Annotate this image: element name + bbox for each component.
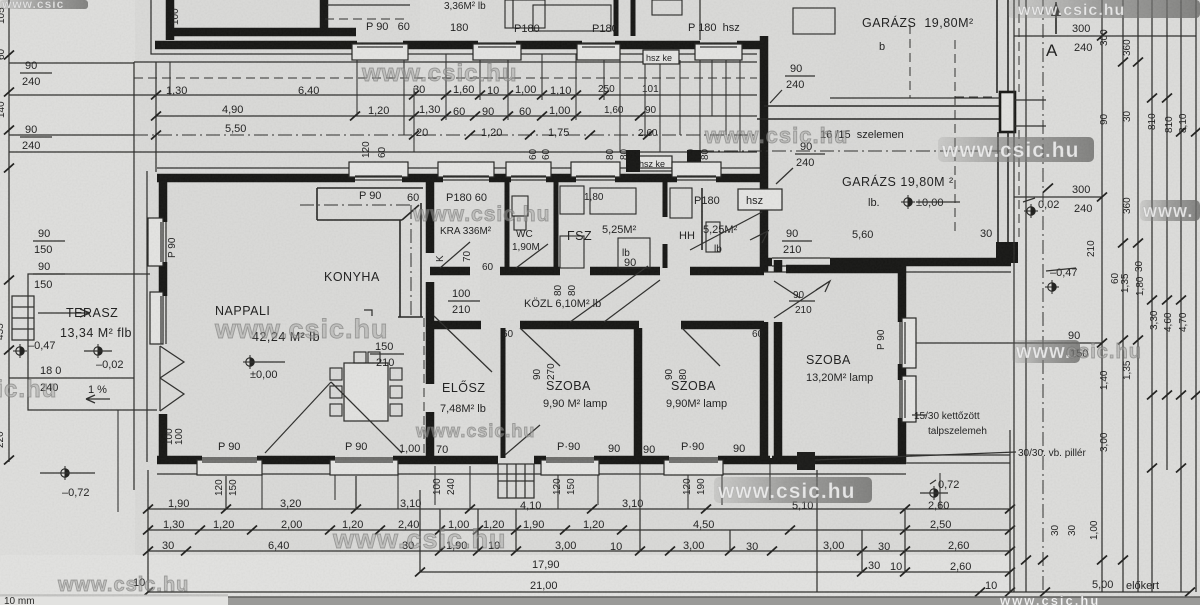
mid strip vertical extension lines	[170, 54, 740, 152]
row A numbers	[168, 498, 949, 512]
row C ticks	[143, 547, 1015, 556]
datum nappali	[243, 355, 285, 381]
szelemen dashdot line	[700, 150, 1005, 152]
rotated dims 80 80 near x610	[605, 148, 630, 160]
top building interior wall vertical2	[320, 0, 329, 30]
partition KRA|WC	[505, 182, 510, 268]
terrace french door triangles	[160, 346, 184, 411]
main bottom wall segments	[157, 456, 770, 465]
right dim 90/150 low	[1014, 330, 1107, 360]
label hszke box top	[643, 50, 679, 64]
bottom row B line	[148, 529, 1010, 531]
label P180 hsz	[694, 189, 782, 210]
rotated dims 120 60 near x370	[361, 141, 388, 158]
door diagonal szoba2	[682, 328, 720, 366]
kitchen vent centerline	[300, 204, 412, 206]
row B numbers	[163, 519, 951, 531]
kitchen dashed counter	[423, 318, 425, 458]
datum -0,47	[13, 340, 56, 358]
row D numbers	[532, 559, 971, 573]
rotated dims szoba2 window	[664, 368, 689, 380]
main top wall window sills	[349, 162, 721, 180]
watermark bottom center band	[714, 477, 872, 503]
wc fixture	[512, 196, 528, 216]
door diagonals kra	[440, 242, 470, 268]
boundary dashed line	[134, 77, 757, 79]
bottom row D line	[420, 571, 1010, 573]
partition HH closet	[701, 188, 703, 250]
right dim 300/240 mid	[1014, 184, 1107, 215]
outer boundary thin line left	[133, 62, 135, 490]
eresz line to pillar	[906, 454, 1010, 456]
left margin horiz stubs	[9, 62, 134, 64]
garage bottom wall	[760, 258, 1011, 267]
chimney stubs on main wall	[626, 150, 640, 172]
garage dashed projection lines	[910, 0, 1019, 240]
mid dimension line row y116	[156, 115, 757, 117]
rotated dims szoba1 window	[532, 363, 557, 380]
ticks mid strip	[151, 91, 653, 140]
row A ticks	[143, 505, 1015, 514]
left dim 90/240	[20, 60, 52, 88]
mid dimension line row y95	[156, 94, 757, 96]
datum -0,72	[40, 466, 95, 499]
garage wall stub to margin hollow	[1015, 100, 1046, 126]
door diagonal szoba3	[774, 281, 830, 318]
fsz fixtures	[560, 186, 584, 214]
garage divider end T block	[1000, 92, 1015, 132]
bottom gray bar	[228, 593, 1200, 605]
watermark right low band	[1012, 340, 1142, 363]
row E ticks	[143, 588, 1195, 597]
garage datum line	[916, 201, 960, 203]
corner mark	[364, 310, 372, 316]
bottom row E line	[148, 591, 1190, 593]
small vertical connectors bottom	[419, 490, 421, 572]
main top wall segments	[157, 174, 764, 183]
bottom wall window sills	[197, 458, 723, 475]
rotated 80 80 kozl	[553, 284, 578, 296]
left connector vertical x156	[155, 62, 157, 172]
left window dims 90 150 90 150	[33, 228, 65, 291]
watermark top-left corner band	[0, 0, 88, 11]
corridor bottom wall y325	[430, 321, 764, 330]
rotated dim pairs below bottom wall	[214, 479, 239, 496]
door diagonals fsz big X	[570, 266, 660, 322]
top building interior wall vertical	[166, 0, 175, 40]
top building windows with sills	[352, 43, 742, 60]
label 90/240 leader top	[770, 63, 815, 103]
inter-row vertical connectors	[440, 509, 862, 572]
datum -0,47 right	[1045, 267, 1078, 294]
door diagonal hh	[690, 212, 768, 250]
datum -0,72 right	[920, 479, 959, 500]
top rooms thin partitions	[325, 0, 835, 40]
label 90/240 leader mid	[776, 141, 825, 184]
kra rotated labels	[435, 250, 473, 262]
nappali 150/210 dim	[370, 341, 404, 369]
watermark right edge band	[1140, 200, 1200, 221]
rotated 60 pairs under top windows	[528, 148, 552, 160]
right vertical lines	[1014, 0, 1196, 592]
garage divider wall hollow	[757, 106, 1009, 119]
garage upper: left wall	[760, 36, 769, 272]
label 90/240 szoba3 door	[789, 290, 815, 316]
bottom vertical x1010	[1009, 430, 1011, 592]
bottom row C line	[148, 550, 1010, 552]
elosz 100/210 dim	[448, 288, 480, 316]
kitchen vent channel hollow	[317, 188, 423, 317]
entrance steps	[498, 464, 534, 498]
watermark right band	[938, 137, 1094, 162]
top building front wall segments	[155, 41, 762, 50]
wall outer face lines	[157, 167, 764, 169]
nappali diagonals	[265, 382, 331, 453]
top building interior wall horizontal	[166, 28, 356, 37]
outer boundary thin line top	[134, 61, 757, 63]
bottom row A line	[148, 508, 1010, 510]
bottom scale strip light	[0, 595, 228, 605]
svg-text:10 mm: 10 mm	[4, 596, 35, 605]
dining table	[330, 352, 402, 421]
main left wall	[148, 175, 166, 462]
garage right wall corner block	[996, 242, 1018, 263]
garage bottom wall outer line	[764, 271, 1011, 273]
mid dimension line row y152	[141, 151, 757, 153]
hh fixtures	[670, 188, 692, 218]
dim 90/210 garage door	[782, 228, 812, 256]
label 30/30 vb piller	[815, 448, 1086, 460]
right dim 300/240 top	[1014, 23, 1107, 54]
garage datum 0,02 right	[1023, 198, 1059, 218]
partition SZOBA1|SZOBA2	[634, 328, 643, 458]
section arrow top	[1051, 2, 1061, 34]
dim 180/240 terasz	[9, 365, 134, 394]
partition FSZ|HH	[663, 182, 668, 268]
watermark top-right band	[1008, 0, 1200, 19]
interior wall ELOSZ left x434	[426, 182, 435, 462]
szoba3 left wall upper stub	[774, 260, 783, 272]
interior wall small rooms bottom y270	[430, 267, 764, 276]
label 1% arrow	[86, 384, 110, 403]
label 15/30 kettozott talpszelemen	[912, 411, 987, 437]
szoba3 top wall	[786, 265, 902, 274]
TERRACE outline	[28, 274, 157, 410]
left wall 100 rotated low	[164, 428, 185, 445]
right area horizontal stubs lower	[916, 342, 1014, 344]
garage upper right wall hollow	[997, 0, 1008, 93]
terrace steps	[12, 296, 90, 340]
left margin vertical dim line	[8, 0, 10, 462]
partition WC|FSZ	[554, 182, 559, 268]
partition ELOSZ|SZOBA1	[501, 328, 506, 458]
right ticks scattered	[1021, 58, 1200, 565]
pillar 30/30	[797, 452, 815, 470]
left dim 90/240 second	[20, 124, 52, 152]
door diagonals wc	[516, 244, 548, 268]
bottom area vertical extension lines	[118, 410, 940, 512]
mid dimension dashdot row y135	[134, 134, 757, 136]
hsz ke box	[636, 156, 672, 171]
garage interior line	[830, 97, 1000, 99]
row B ticks	[143, 526, 1015, 535]
door diagonal szoba1	[520, 328, 560, 366]
garage lower right wall hollow	[998, 132, 1008, 242]
szoba3 block right wall	[900, 266, 916, 462]
garage door gap bottom	[772, 256, 830, 268]
right dashdot line	[1042, 0, 1044, 592]
szoba3 bottom wall	[770, 456, 906, 465]
rotated dims szoba3 window	[876, 329, 887, 350]
row E numbers	[133, 577, 1159, 592]
datum -0,02	[84, 344, 124, 371]
row C numbers	[162, 540, 969, 553]
garage datum ±0,00	[901, 195, 943, 209]
pillar axis line	[816, 470, 818, 592]
partition SZOBA2|SZOBA3 double	[760, 322, 769, 458]
top building outer thin line	[151, 0, 360, 54]
right rotated dims	[1050, 29, 1189, 540]
entrance door diagonal	[505, 425, 540, 455]
row D ticks	[415, 568, 1015, 577]
bottom vertical left x148	[147, 470, 149, 592]
